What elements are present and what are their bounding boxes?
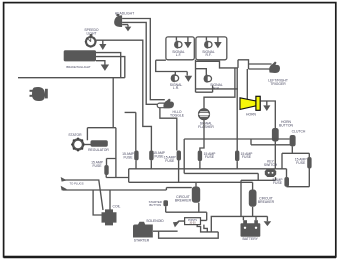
wire headlight outer to toggle bbox=[122, 19, 165, 100]
wire Fc top/bottom bbox=[236, 68, 238, 169]
svg-text:TRIGGER: TRIGGER bbox=[270, 82, 286, 86]
fuse F1b bbox=[149, 151, 153, 161]
fuse Fa bbox=[177, 151, 181, 161]
svg-text:R.F.: R.F. bbox=[205, 53, 211, 57]
wire CB2 bottom bbox=[252, 207, 254, 217]
wire CB1 top bbox=[195, 182, 197, 186]
svg-text:SWITCH: SWITCH bbox=[264, 163, 278, 167]
signal lamp R.R. bbox=[206, 76, 212, 82]
row2 bottom bus bbox=[196, 88, 239, 90]
ground speedo bbox=[102, 40, 104, 44]
wire Fd top/bottom bbox=[308, 153, 310, 186]
wire brake ground lead bbox=[96, 61, 105, 65]
svg-text:BATTERY: BATTERY bbox=[243, 237, 259, 241]
wire Fb bottom bbox=[199, 161, 201, 169]
bus B3 bbox=[129, 169, 253, 183]
regulator bbox=[91, 140, 108, 146]
svg-text:FLASHER: FLASHER bbox=[198, 125, 214, 129]
svg-text:BUTTON: BUTTON bbox=[279, 123, 293, 127]
row boundary step wires bbox=[196, 60, 239, 68]
svg-text:TOGGLE: TOGGLE bbox=[170, 114, 185, 118]
bus B1 bbox=[129, 168, 287, 170]
fuse Fd bbox=[307, 157, 311, 169]
signal R.F. box bbox=[196, 37, 227, 60]
svg-text:COIL: COIL bbox=[113, 205, 121, 209]
bus B2 bbox=[184, 139, 258, 173]
headlight lamp bbox=[114, 14, 122, 27]
horn bbox=[240, 96, 260, 110]
condenser arrow bbox=[177, 221, 185, 223]
wire starter right bbox=[153, 231, 218, 238]
circuit breaker 1 bbox=[192, 187, 200, 203]
svg-text:L.F.: L.F. bbox=[176, 53, 182, 57]
starter button bbox=[163, 200, 168, 206]
left/right trigger bbox=[269, 62, 280, 74]
solenoid box bbox=[185, 218, 201, 225]
bus B2 jog to battery bbox=[241, 173, 276, 216]
ground brake light bbox=[101, 65, 109, 71]
wire horn button to bus bbox=[274, 142, 276, 169]
svg-text:FUSE: FUSE bbox=[92, 164, 102, 168]
svg-text:FUSE: FUSE bbox=[296, 161, 306, 165]
wire horn out bbox=[260, 101, 275, 128]
svg-text:L.R.: L.R. bbox=[173, 86, 179, 90]
svg-text:SOLENOID: SOLENOID bbox=[146, 219, 164, 223]
starter bbox=[133, 222, 153, 238]
row2 inner bottom jog bbox=[196, 86, 213, 93]
wire clutch down bbox=[282, 146, 309, 168]
fuse F1a bbox=[134, 151, 138, 161]
to plugs arrowheads bbox=[61, 177, 67, 190]
svg-text:FUSE: FUSE bbox=[154, 155, 164, 159]
ground signal RF bbox=[217, 37, 219, 42]
svg-text:TO PLUGS: TO PLUGS bbox=[70, 182, 84, 186]
ground battery bbox=[264, 221, 272, 226]
wire toggle to fuse Fa bbox=[160, 108, 177, 151]
key switch bbox=[265, 169, 276, 177]
svg-text:STARTER: STARTER bbox=[134, 238, 150, 242]
signal lamp L.R. bbox=[173, 75, 179, 81]
wire battery plus bbox=[242, 216, 244, 220]
clutch switch bbox=[290, 135, 296, 146]
svg-text:BREAKER: BREAKER bbox=[175, 198, 192, 202]
circuit breaker 2 bbox=[249, 190, 257, 207]
brake/tail light bbox=[64, 50, 96, 61]
wire headlight inner to toggle slot bbox=[122, 22, 157, 104]
svg-text:STATOR: STATOR bbox=[68, 133, 82, 137]
wire fuse Fa bottom bbox=[178, 161, 180, 183]
wire brake feed 2 bbox=[96, 57, 125, 78]
wire B1 to 5A fuse bbox=[287, 169, 310, 187]
wire flasher to fuse Fb bbox=[200, 120, 204, 151]
ground signal LF bbox=[187, 37, 189, 42]
svg-text:FUSE: FUSE bbox=[242, 155, 252, 159]
svg-text:BUTTON: BUTTON bbox=[149, 203, 161, 207]
wire stator-regulator bbox=[84, 144, 91, 146]
wire F1b bottom bbox=[150, 160, 152, 168]
speedo light gauge bbox=[90, 34, 93, 37]
fuse F0 bbox=[104, 165, 108, 175]
svg-text:CLUTCH: CLUTCH bbox=[292, 130, 306, 134]
main vertical MV1 bbox=[87, 78, 116, 178]
signal lamp L.F. bbox=[175, 37, 177, 41]
ground signal LR bbox=[185, 76, 193, 82]
stub wire to fuse F1a bbox=[125, 112, 136, 150]
ground headlight bbox=[122, 25, 128, 27]
svg-text:30-50: 30-50 bbox=[189, 222, 196, 225]
signal flasher bbox=[199, 109, 210, 120]
accessory plug bbox=[30, 87, 48, 101]
signal lamp R.F. bbox=[205, 37, 207, 41]
svg-text:HORN: HORN bbox=[246, 112, 257, 116]
fuse Fc bbox=[235, 151, 239, 162]
coil bbox=[102, 209, 117, 225]
wire CB2 top bbox=[252, 182, 254, 189]
svg-text:FUSE: FUSE bbox=[165, 159, 175, 163]
wire brake feed 1 bbox=[96, 53, 121, 78]
svg-text:BRAKE/TAILLIGHT: BRAKE/TAILLIGHT bbox=[66, 65, 90, 69]
wire F1a bottom bbox=[135, 160, 137, 168]
wire fuse F0 bottom bbox=[106, 175, 129, 178]
signal L.F. box bbox=[166, 37, 194, 60]
wire battery minus to ground bbox=[256, 216, 267, 221]
wire speedo to fuse F1b bbox=[96, 40, 152, 150]
horn button bbox=[272, 128, 279, 142]
stator bbox=[71, 138, 85, 152]
wire flasher drop bbox=[204, 68, 235, 108]
fuse Fb bbox=[198, 151, 202, 162]
battery bbox=[241, 220, 261, 237]
fuse 5A bbox=[284, 177, 289, 187]
svg-text:FUSE: FUSE bbox=[273, 181, 283, 185]
clutch bus wire bbox=[184, 139, 292, 145]
svg-text:FUSE: FUSE bbox=[123, 156, 133, 160]
signal R.R. unit bbox=[196, 60, 207, 92]
left bus wire bbox=[18, 77, 125, 79]
hi/lo toggle bbox=[157, 103, 171, 108]
svg-text:REGULATOR: REGULATOR bbox=[88, 148, 109, 152]
wire coil top bbox=[110, 188, 192, 210]
left/right trigger wires bbox=[238, 60, 272, 99]
to plugs wires bbox=[63, 180, 167, 215]
ground horn bbox=[266, 101, 268, 105]
solenoid bottom staircase wires bbox=[197, 216, 267, 232]
svg-text:FUSE: FUSE bbox=[205, 155, 215, 159]
wire CB1 bottom to starter button bbox=[166, 203, 207, 221]
svg-text:BREAKER: BREAKER bbox=[258, 200, 275, 204]
signal L.R. unit bbox=[156, 60, 188, 75]
